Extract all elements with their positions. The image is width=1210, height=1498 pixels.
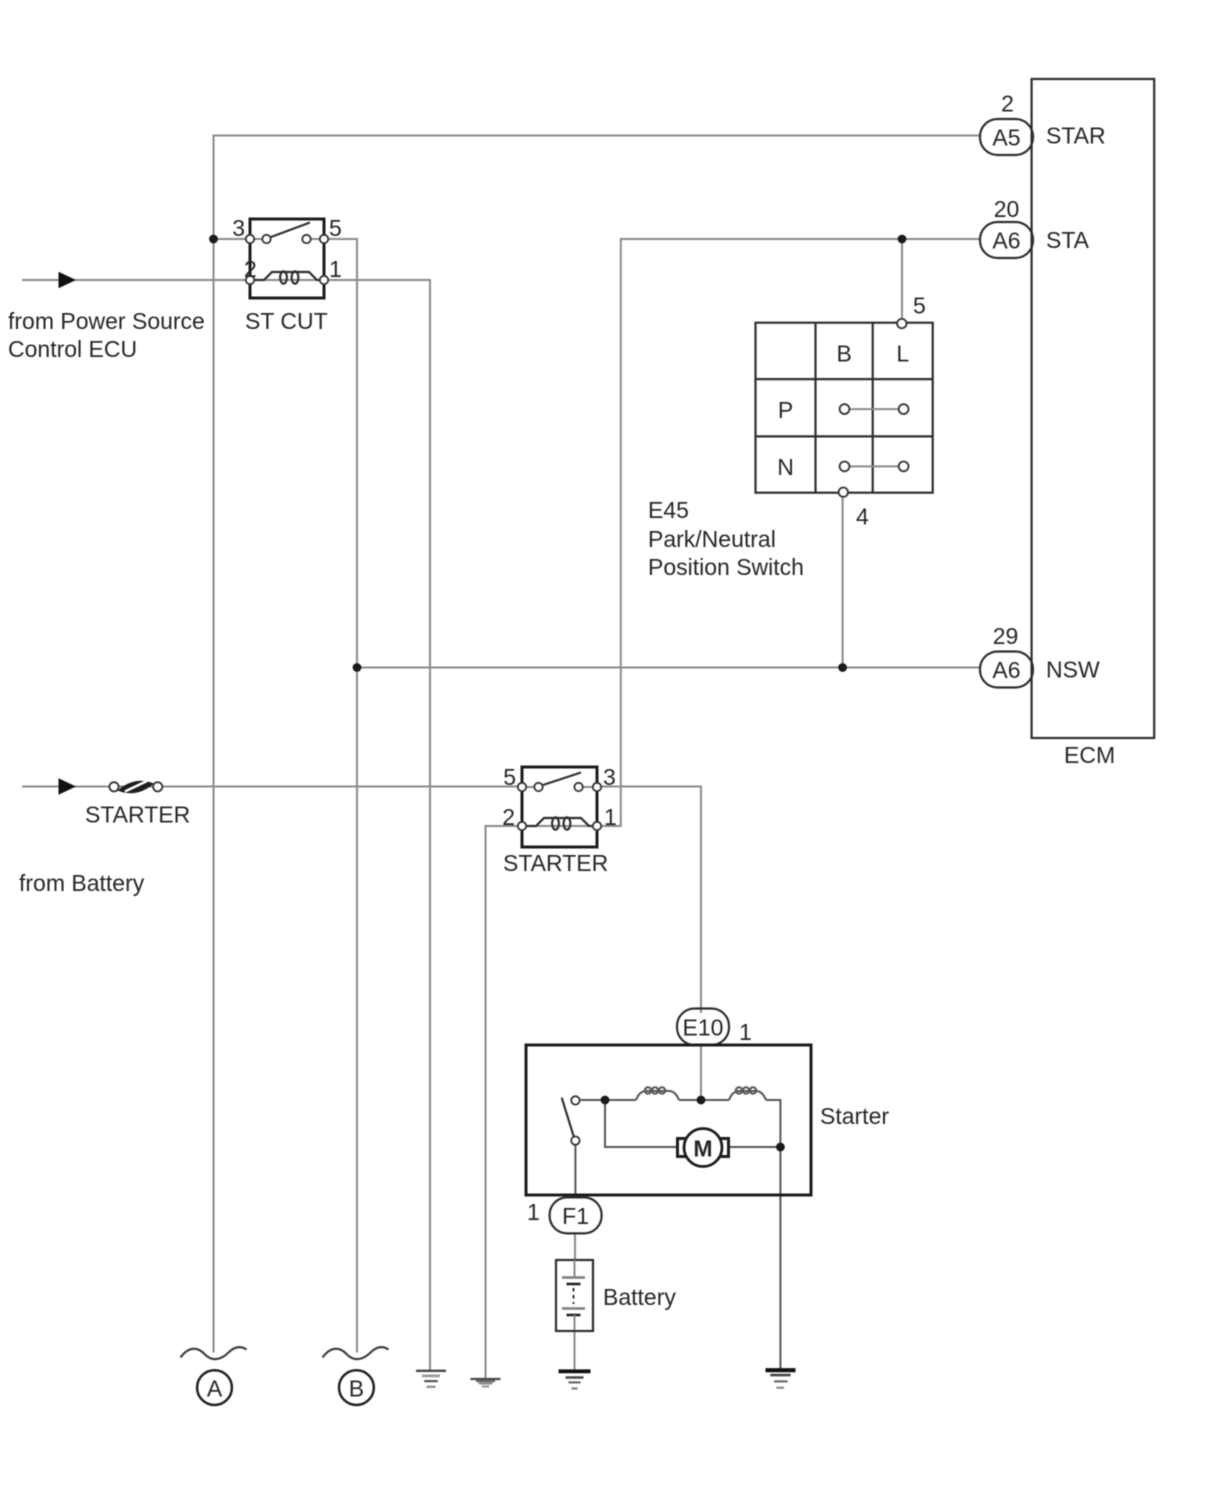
svg-text:29: 29 xyxy=(993,623,1019,649)
svg-text:Control ECU: Control ECU xyxy=(8,336,137,362)
starter wire: motor left branch xyxy=(605,1099,677,1147)
svg-text:1: 1 xyxy=(739,1019,752,1045)
junction: starter switch branch xyxy=(601,1096,610,1105)
svg-text:B: B xyxy=(837,341,852,367)
svg-text:STA: STA xyxy=(1046,227,1090,253)
svg-text:Battery: Battery xyxy=(603,1284,676,1310)
junction: bus A / ST CUT pin 3 xyxy=(209,235,218,244)
svg-text:5: 5 xyxy=(329,215,342,241)
relay STARTER xyxy=(518,767,601,847)
wire: battery feed to STARTER relay pin 5 xyxy=(22,786,523,788)
svg-text:1: 1 xyxy=(329,256,342,282)
P/N switch pin 4 circle xyxy=(839,488,848,497)
svg-text:3: 3 xyxy=(603,764,616,790)
connector A5 xyxy=(980,119,1033,155)
connector F1 xyxy=(550,1197,602,1233)
wire: stub to ST CUT pin 3 xyxy=(214,238,252,240)
junction: motor right branch xyxy=(776,1143,785,1152)
svg-text:2: 2 xyxy=(244,256,257,282)
wire: battery to ground G3 xyxy=(574,1329,576,1370)
starter wire: motor right branch xyxy=(729,1146,780,1148)
wire: STA vertical to STARTER relay pin 1 xyxy=(596,238,621,826)
svg-text:Starter: Starter xyxy=(820,1103,889,1129)
ground G4 (starter) xyxy=(766,1370,796,1388)
svg-text:E45: E45 xyxy=(648,497,689,523)
svg-text:2: 2 xyxy=(502,804,515,830)
junction: P/N pin4 / NSW wire xyxy=(838,663,847,672)
svg-text:STARTER: STARTER xyxy=(503,850,608,876)
wire: ST CUT pin 1 out xyxy=(323,279,430,281)
P/N switch contact row N xyxy=(840,462,909,472)
svg-text:20: 20 xyxy=(994,196,1020,222)
svg-text:M: M xyxy=(693,1136,712,1162)
relay ST CUT xyxy=(246,219,328,298)
svg-text:F1: F1 xyxy=(562,1203,589,1229)
svg-text:A: A xyxy=(207,1376,223,1402)
park/neutral position switch E45 grid xyxy=(756,323,933,493)
arrow: from Battery xyxy=(59,778,77,794)
starter coil 1 xyxy=(605,1087,701,1100)
svg-text:ST CUT: ST CUT xyxy=(245,308,328,334)
svg-text:1: 1 xyxy=(527,1199,540,1225)
junction: P/N pin5 / STA wire xyxy=(898,235,907,244)
junction: bus B / NSW wire xyxy=(353,663,362,672)
ECM box xyxy=(1032,79,1155,738)
ground G3 (battery) xyxy=(559,1371,591,1388)
wire: starter motor return to ground G4 xyxy=(779,1147,781,1370)
connector A6 STA xyxy=(980,222,1033,258)
svg-text:5: 5 xyxy=(503,764,516,790)
arrow: from Power Source Control ECU xyxy=(59,272,77,288)
svg-text:L: L xyxy=(896,341,909,367)
connector A6 NSW xyxy=(980,652,1033,688)
fusible link STARTER xyxy=(109,781,162,794)
wire: vertical down to ground G1 xyxy=(429,279,431,1370)
svg-text:STARTER: STARTER xyxy=(85,802,190,828)
starter assembly box xyxy=(526,1045,811,1195)
wire: NSW horizontal xyxy=(356,667,981,669)
wire: P/N switch pin 4 drop xyxy=(842,497,844,668)
wire: STAR feed horizontal to A5 xyxy=(214,135,982,137)
svg-text:1: 1 xyxy=(604,804,617,830)
svg-text:A6: A6 xyxy=(992,228,1020,254)
starter wire: coil end down to motor line xyxy=(779,1099,781,1147)
wire: ST CUT pin 5 to bus B xyxy=(323,238,357,240)
wire: STARTER relay pin 2 to ground G2 xyxy=(486,826,522,1379)
wire: bus B vertical xyxy=(356,238,358,1353)
wire: STA horizontal xyxy=(621,238,981,240)
starter internal switch xyxy=(562,1096,580,1145)
shield connector A xyxy=(181,1347,247,1405)
wire: E10 to starter coil junction xyxy=(700,1044,702,1101)
svg-text:from Power Source: from Power Source xyxy=(8,308,205,334)
svg-text:from Battery: from Battery xyxy=(19,870,145,896)
wire: F1 to battery xyxy=(574,1233,576,1261)
connector E10 xyxy=(677,1009,729,1046)
ground G2 (x485) xyxy=(471,1379,501,1386)
motor M xyxy=(678,1129,729,1167)
junction: E10 / coils xyxy=(697,1096,706,1105)
svg-text:5: 5 xyxy=(913,293,926,319)
svg-text:NSW: NSW xyxy=(1046,657,1100,683)
svg-text:2: 2 xyxy=(1001,91,1014,117)
starter coil 2 xyxy=(701,1087,780,1100)
wire: STARTER relay pin 3 to connector E10 xyxy=(596,787,701,1014)
svg-text:E10: E10 xyxy=(683,1015,724,1041)
svg-text:STAR: STAR xyxy=(1046,123,1106,149)
svg-text:P: P xyxy=(778,397,793,423)
svg-text:N: N xyxy=(777,454,794,480)
svg-text:Position Switch: Position Switch xyxy=(648,554,804,580)
svg-text:3: 3 xyxy=(232,215,245,241)
wire: power source input to ST CUT pin 2 xyxy=(22,279,251,281)
wire: starter switch to F1 xyxy=(574,1143,576,1198)
starter wire: switch to junction xyxy=(580,1099,605,1101)
svg-text:A6: A6 xyxy=(992,657,1020,683)
svg-text:A5: A5 xyxy=(992,125,1020,151)
wire: P/N switch pin 5 riser xyxy=(901,239,903,320)
wire: bus A vertical xyxy=(213,135,215,1353)
shield connector B xyxy=(323,1347,389,1405)
svg-text:Park/Neutral: Park/Neutral xyxy=(648,526,776,552)
battery xyxy=(556,1260,593,1331)
P/N switch pin 5 circle xyxy=(897,319,906,328)
P/N switch contact row P xyxy=(840,404,909,414)
svg-text:ECM: ECM xyxy=(1064,742,1115,768)
svg-text:4: 4 xyxy=(856,504,869,530)
svg-text:B: B xyxy=(349,1376,364,1402)
ground G1 (x430) xyxy=(416,1371,446,1387)
